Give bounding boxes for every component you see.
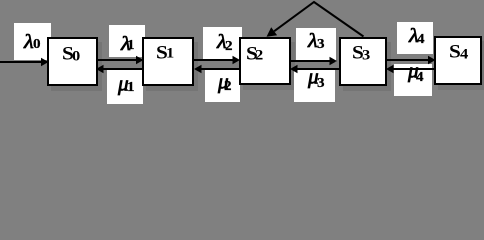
arrows layer <box>0 0 484 105</box>
label box lambda0 <box>14 23 52 60</box>
label box mu2 <box>205 70 240 102</box>
box S4 <box>434 36 482 85</box>
label box lambda1 <box>109 25 146 58</box>
label mu1 <box>118 73 129 95</box>
arrow lambda4 S3 to S4 <box>386 56 436 65</box>
box S2 <box>239 37 291 85</box>
label box mu3 <box>294 68 335 102</box>
arrow mu3 S3 to S2 <box>290 65 339 74</box>
box S3 <box>339 37 387 86</box>
arrow mu1 S1 to S0 <box>96 65 143 74</box>
label mu4 <box>408 60 419 82</box>
label lambda1 <box>121 34 131 55</box>
box S1 <box>142 37 194 86</box>
shadow S4 <box>438 41 484 90</box>
shadow S3 <box>343 42 391 91</box>
shadow S2 <box>243 42 295 90</box>
label S1 <box>156 43 168 62</box>
arrow mu4 S4 to S3 <box>386 65 435 74</box>
arrow lambda3 S2 to S3 <box>290 57 337 66</box>
label S0 <box>62 44 74 63</box>
box S0 <box>47 37 98 86</box>
arrow lambda1 S0 to S1 <box>96 56 144 65</box>
label box lambda3 <box>296 28 336 62</box>
label lambda4 <box>409 26 419 47</box>
arrow mu2 S2 to S1 <box>194 65 240 74</box>
bent connector from S3 top to S2 top <box>267 2 364 37</box>
arrow lambda2 S1 to S2 <box>193 56 240 65</box>
label mu2 <box>218 71 229 93</box>
label lambda2 <box>217 32 227 53</box>
label box lambda2 <box>203 27 242 60</box>
label lambda3 <box>308 31 318 52</box>
label S3 <box>352 43 364 62</box>
label lambda0 <box>24 32 34 53</box>
label box mu1 <box>107 70 143 104</box>
label mu3 <box>308 66 319 88</box>
label box mu4 <box>394 64 432 96</box>
entry arrow into S0 <box>0 58 49 67</box>
label S2 <box>246 44 258 63</box>
label box lambda4 <box>397 22 433 54</box>
shadow S0 <box>51 42 102 91</box>
shadow S1 <box>146 42 198 91</box>
label S4 <box>449 42 461 61</box>
